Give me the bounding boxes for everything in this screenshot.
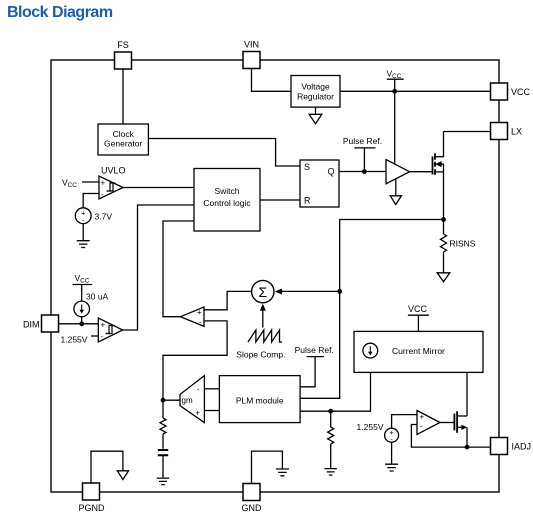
svg-text:-: - xyxy=(199,318,202,327)
node M2 source junction xyxy=(465,445,470,450)
svg-text:30 uA: 30 uA xyxy=(86,292,109,302)
wire op-amp output to M2 gate xyxy=(440,422,454,424)
svg-text:IADJ: IADJ xyxy=(512,442,532,452)
svg-text:PGND: PGND xyxy=(78,503,105,513)
wire 3.7V to ground xyxy=(82,224,84,241)
wire slope comp into summer with arrowhead xyxy=(260,304,266,328)
wire gm minus to PLM xyxy=(204,388,219,390)
ground arrow under voltage regulator xyxy=(309,107,322,124)
svg-text:Switch: Switch xyxy=(214,186,239,196)
block current mirror xyxy=(354,331,483,372)
Vcc supply label at rail xyxy=(387,69,404,92)
wire 30uA to DIM node xyxy=(81,317,83,324)
wire drain to LX pin xyxy=(444,131,491,133)
svg-text:Generator: Generator xyxy=(104,139,142,149)
node source sense junction xyxy=(441,217,446,222)
pin IADJ xyxy=(491,438,532,455)
summer sigma xyxy=(252,280,274,302)
wire current sense from source to PLM module xyxy=(300,220,444,399)
svg-text:Slope Comp.: Slope Comp. xyxy=(236,350,285,360)
latch SR xyxy=(300,160,339,207)
svg-text:Pulse Ref.: Pulse Ref. xyxy=(343,136,382,146)
wire gm output to comp node xyxy=(163,399,180,401)
wire driver to gate xyxy=(410,171,433,173)
resistor RISNS xyxy=(441,220,476,273)
ground arrow under gate driver xyxy=(390,179,401,205)
wire op-amp minus feedback xyxy=(411,425,467,448)
svg-text:VCC: VCC xyxy=(511,87,531,97)
node DIM junction xyxy=(79,321,84,326)
wire Vcc rail to gate driver xyxy=(394,91,396,164)
node sense to summer junction xyxy=(337,289,342,294)
block voltage regulator xyxy=(291,76,340,108)
wire PWM minus input to comp node xyxy=(163,321,227,400)
ground at GND pin xyxy=(276,469,289,476)
comparator PWM xyxy=(181,307,205,327)
svg-text:S: S xyxy=(304,162,310,172)
label VCC above current mirror xyxy=(408,304,429,331)
svg-text:+: + xyxy=(101,321,106,330)
wire 1.255V to ground xyxy=(391,442,393,464)
svg-text:+: + xyxy=(197,308,202,317)
wire 1.255V stub xyxy=(91,335,98,337)
current source 30uA xyxy=(74,292,109,317)
wire to IADJ pin xyxy=(467,446,491,448)
capacitor comp RC xyxy=(158,450,168,477)
wire DIM pin to comparator xyxy=(59,323,99,325)
node comp xyxy=(161,398,166,403)
svg-text:Control logic: Control logic xyxy=(203,198,251,208)
svg-text:1.255V: 1.255V xyxy=(357,422,384,432)
svg-text:GND: GND xyxy=(242,503,263,513)
node Vcc rail junction xyxy=(392,89,397,94)
wire PGND pin to ground arrow xyxy=(91,451,123,483)
node Q wire junction xyxy=(362,169,367,174)
transistor M2 xyxy=(454,411,467,447)
wire sense into summer with arrowhead xyxy=(275,289,340,295)
svg-text:+: + xyxy=(420,413,425,422)
svg-text:Block Diagram: Block Diagram xyxy=(7,4,113,21)
svg-text:Current Mirror: Current Mirror xyxy=(392,346,445,356)
slope comp sawtooth xyxy=(248,330,282,342)
svg-text:UVLO: UVLO xyxy=(101,166,126,176)
gate driver buffer xyxy=(386,160,410,184)
svg-text:-: - xyxy=(197,385,200,394)
svg-text:RISNS: RISNS xyxy=(450,239,476,249)
resistor comp RC xyxy=(160,400,166,449)
ground arrow under RISNS xyxy=(437,273,450,282)
wire Vcc to UVLO plus input xyxy=(82,181,99,183)
svg-text:VIN: VIN xyxy=(244,40,259,50)
wire voltage regulator to VCC pin xyxy=(340,90,491,92)
svg-text:1.255V: 1.255V xyxy=(61,335,88,345)
ground arrow at PGND xyxy=(117,471,128,480)
svg-text:3.7V: 3.7V xyxy=(95,212,113,222)
wire FS to clock generator xyxy=(122,69,124,124)
svg-text:-: - xyxy=(420,422,423,431)
pin VCC xyxy=(491,83,531,100)
transistor M1 power NMOS xyxy=(433,132,444,220)
wire Q output to gate driver xyxy=(339,171,386,173)
wire DIM comparator output to switch control logic xyxy=(123,205,194,330)
resistor at PLM output xyxy=(328,411,334,468)
svg-text:Q: Q xyxy=(327,167,334,177)
wire 1.255V to op-amp plus xyxy=(392,415,417,429)
wire VIN to voltage regulator xyxy=(252,69,292,92)
pin FS xyxy=(115,40,132,69)
wire PWM comparator output to switch control logic xyxy=(163,221,194,317)
pin GND xyxy=(242,484,263,513)
svg-text:LX: LX xyxy=(511,127,522,137)
ground below comp RC xyxy=(157,478,169,485)
wire PLM output to current mirror xyxy=(300,372,371,411)
wire UVLO minus input to 3.7V source xyxy=(83,194,99,208)
wire summer output to PWM comparator plus xyxy=(204,291,252,309)
svg-text:Clock: Clock xyxy=(113,129,135,139)
pin PGND xyxy=(78,483,105,513)
svg-text:-: - xyxy=(101,332,104,341)
voltage source 3.7V xyxy=(75,208,112,225)
svg-text:gm: gm xyxy=(182,396,193,405)
svg-text:Voltage: Voltage xyxy=(301,81,330,91)
block PLM module xyxy=(219,376,300,423)
svg-text:Pulse Ref.: Pulse Ref. xyxy=(295,345,334,355)
pin LX xyxy=(491,123,523,140)
svg-text:VCC: VCC xyxy=(408,304,428,314)
voltage source 1.255V xyxy=(357,422,399,444)
wire UVLO output to switch control logic xyxy=(123,187,194,189)
svg-text:Regulator: Regulator xyxy=(297,92,334,102)
pin DIM xyxy=(23,315,59,332)
ground below 1.255V xyxy=(385,464,398,471)
amplifier gm xyxy=(180,376,204,423)
svg-text:DIM: DIM xyxy=(23,320,40,330)
svg-text:Σ: Σ xyxy=(258,284,267,300)
ground below 3.7V xyxy=(77,241,90,248)
svg-text:-: - xyxy=(101,190,104,199)
label Pulse Ref at Q wire xyxy=(343,136,382,172)
node PLM output junction xyxy=(328,409,333,414)
wire switch control logic to R input xyxy=(260,199,300,201)
svg-text:FS: FS xyxy=(117,40,129,50)
chip outline xyxy=(51,60,499,492)
svg-text:+: + xyxy=(195,409,200,418)
pin VIN xyxy=(243,40,260,69)
block clock generator xyxy=(98,124,148,155)
wire gm plus to PLM xyxy=(204,410,219,412)
svg-text:PLM module: PLM module xyxy=(236,395,284,405)
op-amp IADJ xyxy=(417,411,440,435)
wire GND pin to internal ground xyxy=(252,451,283,483)
comparator UVLO xyxy=(99,176,123,199)
ground below PLM output resistor xyxy=(325,469,337,476)
svg-text:+: + xyxy=(101,179,106,188)
label Pulse Ref at PLM xyxy=(295,345,334,387)
svg-text:R: R xyxy=(304,196,311,206)
comparator DIM xyxy=(98,318,122,342)
label Vcc above 30uA source xyxy=(73,273,93,301)
wire clock to S input of latch xyxy=(148,139,300,167)
wire current mirror to M2 drain xyxy=(466,372,468,416)
block switch control logic xyxy=(194,169,260,232)
